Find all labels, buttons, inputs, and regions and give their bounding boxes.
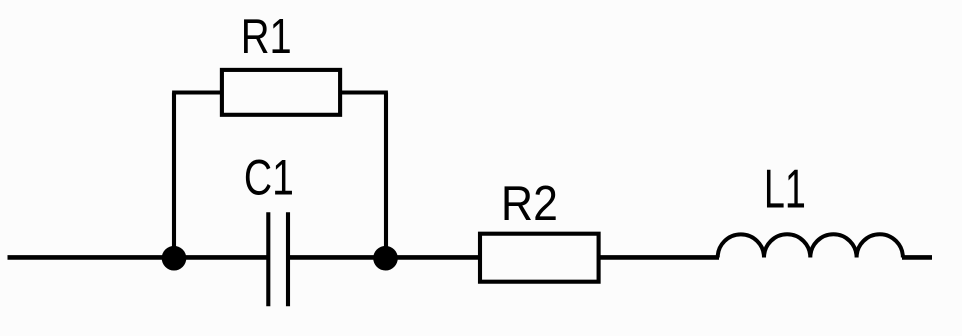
inductor L1	[718, 234, 903, 257]
node A (junction dot left)	[162, 246, 187, 271]
wire: node 1 to C1 left plate	[174, 255, 267, 260]
svg-text:R1: R1	[241, 10, 292, 64]
svg-text:C1: C1	[244, 150, 294, 206]
wire: left lead into node 1	[8, 255, 175, 260]
wire: node 2 to R2	[386, 255, 480, 260]
svg-text:L1: L1	[764, 159, 806, 220]
wire: left vertical branch	[172, 93, 176, 259]
wire: C1 right plate to node 2	[289, 255, 386, 260]
resistor R1	[222, 70, 340, 115]
resistor R2	[480, 234, 599, 282]
wire: top-left horizontal to R1	[172, 90, 221, 94]
wire: L1 to right end	[902, 255, 932, 260]
wire: R2 to L1	[599, 255, 719, 260]
wire: right vertical branch	[384, 93, 388, 259]
wire: R1 to top-right horizontal	[341, 90, 388, 94]
capacitor C1	[268, 212, 288, 306]
node B (junction dot right)	[373, 246, 398, 271]
svg-text:R2: R2	[501, 176, 558, 231]
